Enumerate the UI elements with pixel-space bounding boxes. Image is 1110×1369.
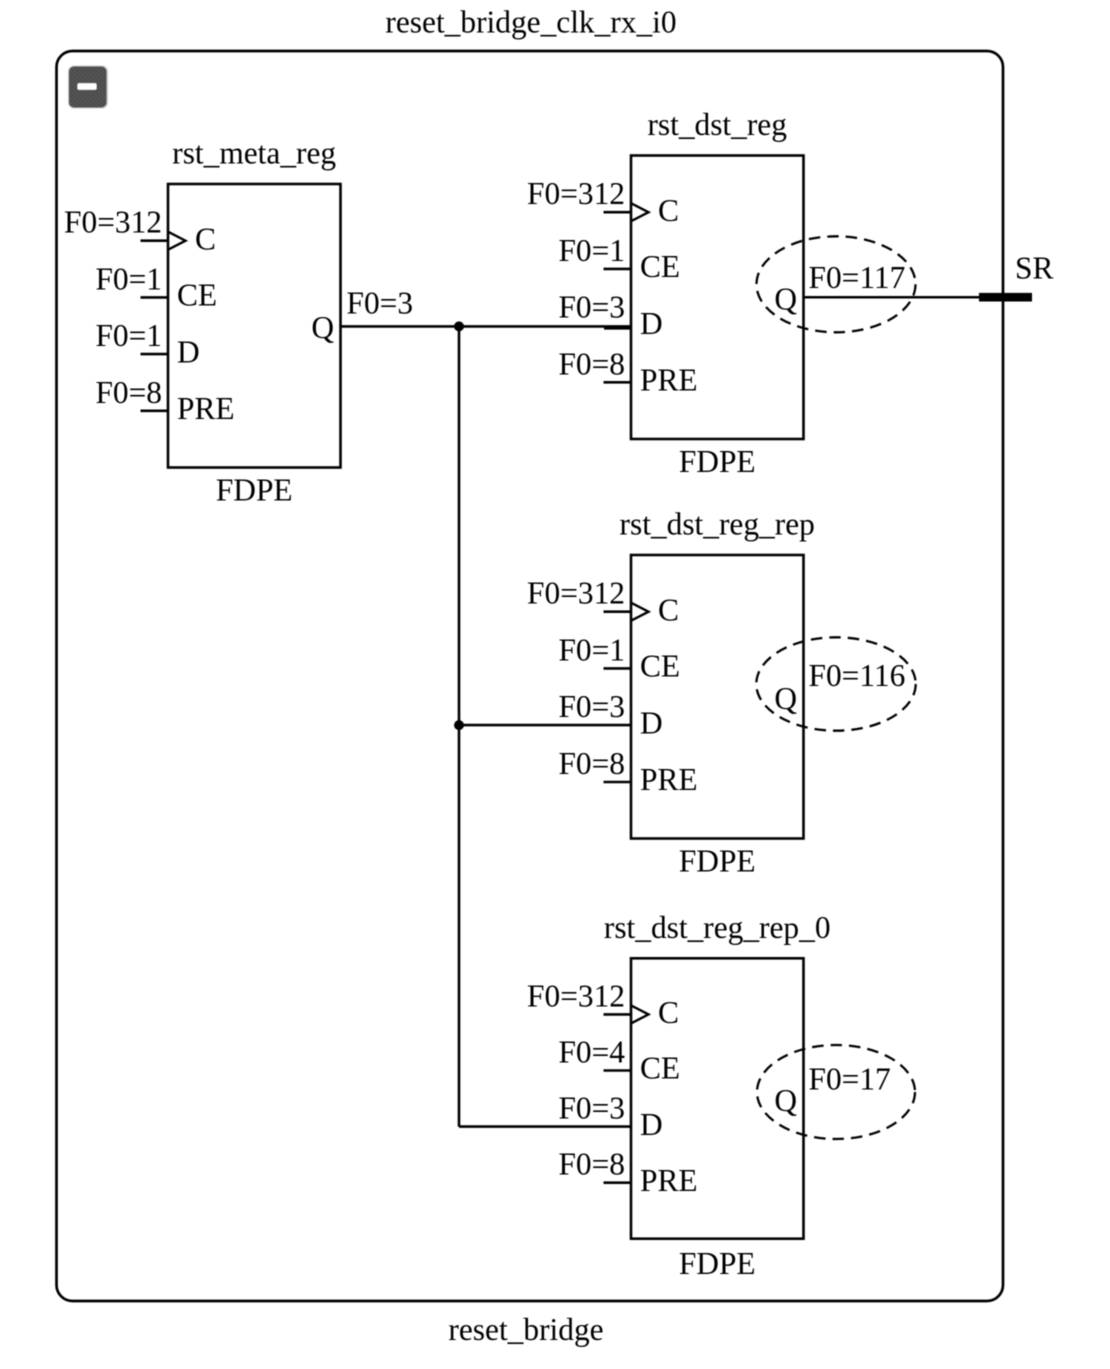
svg-text:F0=8: F0=8 (95, 375, 162, 410)
svg-text:F0=8: F0=8 (558, 346, 625, 381)
wire FF2.Q to SR port (804, 296, 1033, 299)
wire vertical trunk (458, 326, 461, 1126)
flip-flop rst_dst_reg_rep body (631, 555, 804, 839)
svg-text:F0=4: F0=4 (558, 1035, 625, 1070)
svg-text:F0=116: F0=116 (809, 658, 906, 693)
clock triangle C (631, 603, 649, 621)
fanout ellipse FF4.Q (757, 1045, 915, 1139)
svg-text:D: D (640, 705, 663, 740)
svg-text:D: D (640, 1107, 663, 1142)
junction dot B (454, 720, 464, 730)
svg-text:F0=1: F0=1 (95, 318, 162, 353)
output port SR bar (979, 293, 1032, 302)
svg-text:rst_meta_reg: rst_meta_reg (172, 136, 336, 171)
pin stub CE (604, 268, 632, 271)
svg-text:F0=312: F0=312 (527, 576, 625, 611)
pin stub CE (141, 296, 169, 299)
svg-text:CE: CE (640, 649, 680, 684)
pin stub D (141, 353, 169, 356)
svg-text:CE: CE (640, 249, 680, 284)
svg-text:Q: Q (774, 282, 797, 317)
pin stub C (141, 239, 169, 242)
svg-text:CE: CE (177, 278, 217, 313)
svg-text:F0=312: F0=312 (527, 176, 625, 211)
pin stub PRE (141, 409, 169, 412)
collapse button (minus icon) (68, 66, 108, 109)
wire FF1.Q to FF2.D (341, 325, 632, 328)
svg-text:CE: CE (640, 1051, 680, 1086)
svg-text:Q: Q (774, 681, 797, 716)
clock triangle C (631, 1005, 649, 1023)
svg-text:F0=3: F0=3 (558, 689, 625, 724)
flip-flop rst_meta_reg body (168, 184, 341, 468)
svg-text:F0=1: F0=1 (558, 233, 625, 268)
pin stub PRE (604, 381, 632, 384)
pin stub D (604, 327, 631, 330)
svg-text:F0=8: F0=8 (558, 746, 625, 781)
pin stub CE (604, 667, 632, 670)
svg-text:C: C (658, 593, 679, 628)
flip-flop rst_dst_reg_rep_0 body (631, 958, 804, 1238)
svg-text:Q: Q (774, 1083, 797, 1118)
junction dot A (454, 321, 464, 331)
svg-text:PRE: PRE (640, 1163, 698, 1198)
svg-text:FDPE: FDPE (679, 844, 756, 879)
svg-text:D: D (177, 334, 200, 369)
svg-text:F0=3: F0=3 (558, 290, 625, 325)
svg-text:FDPE: FDPE (679, 1246, 756, 1281)
pin stub PRE (604, 1181, 632, 1184)
svg-text:C: C (658, 193, 679, 228)
svg-text:reset_bridge_clk_rx_i0: reset_bridge_clk_rx_i0 (385, 5, 676, 40)
flip-flop rst_dst_reg body (631, 156, 804, 440)
pin stub C (604, 1013, 632, 1016)
svg-text:F0=117: F0=117 (809, 260, 906, 295)
svg-text:C: C (658, 995, 679, 1030)
svg-text:FDPE: FDPE (679, 444, 756, 479)
clock triangle C (631, 203, 649, 221)
pin stub C (604, 610, 632, 613)
svg-text:rst_dst_reg_rep: rst_dst_reg_rep (620, 507, 815, 542)
fanout ellipse FF3.Q (756, 637, 915, 730)
wire branch to FF3.D (459, 724, 631, 727)
svg-text:F0=17: F0=17 (809, 1062, 891, 1097)
svg-text:F0=3: F0=3 (347, 286, 414, 321)
svg-text:D: D (640, 306, 663, 341)
svg-text:PRE: PRE (640, 363, 698, 398)
pin stub C (604, 211, 632, 214)
svg-text:PRE: PRE (640, 762, 698, 797)
svg-text:PRE: PRE (177, 391, 235, 426)
svg-text:F0=1: F0=1 (95, 261, 162, 296)
pin stub CE (604, 1069, 632, 1072)
svg-text:rst_dst_reg: rst_dst_reg (647, 107, 787, 142)
fanout ellipse FF2.Q (757, 236, 916, 332)
svg-text:F0=1: F0=1 (558, 632, 625, 667)
svg-text:F0=3: F0=3 (558, 1091, 625, 1126)
svg-text:F0=8: F0=8 (558, 1147, 625, 1182)
svg-text:FDPE: FDPE (216, 473, 293, 508)
svg-text:F0=312: F0=312 (527, 978, 625, 1013)
svg-text:C: C (195, 222, 216, 257)
svg-text:Q: Q (311, 310, 334, 345)
svg-text:rst_dst_reg_rep_0: rst_dst_reg_rep_0 (604, 910, 831, 945)
hierarchy block reset_bridge_clk_rx_i0 boundary (57, 51, 1004, 1301)
clock triangle C (168, 232, 186, 250)
svg-text:SR: SR (1015, 250, 1053, 285)
svg-text:F0=312: F0=312 (64, 205, 162, 240)
pin stub PRE (604, 781, 632, 784)
svg-text:reset_bridge: reset_bridge (448, 1312, 603, 1347)
wire branch to FF4.D (459, 1125, 631, 1128)
